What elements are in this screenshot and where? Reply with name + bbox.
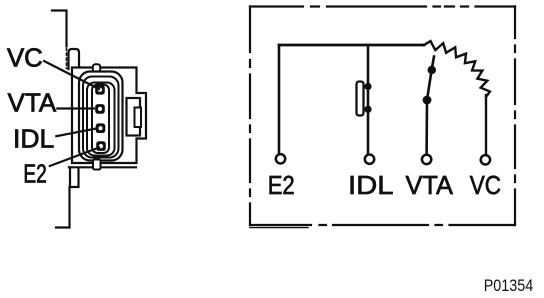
wire IDL drop xyxy=(367,45,370,154)
connector shroud outer xyxy=(79,72,123,161)
pin VTA (2) xyxy=(95,104,105,114)
wire E2 drop xyxy=(278,45,281,153)
svg-text:E2: E2 xyxy=(23,161,46,189)
body tab top xyxy=(69,49,80,69)
dashed box left xyxy=(249,7,251,226)
terminal VTA xyxy=(422,155,431,164)
connector bottom foot xyxy=(93,160,101,170)
wire VC drop xyxy=(485,95,487,154)
dashed box bottom xyxy=(250,224,515,226)
svg-text:VC: VC xyxy=(470,170,501,200)
svg-text:IDL: IDL xyxy=(13,125,54,153)
leader E2 xyxy=(50,148,99,167)
leader VTA xyxy=(57,107,94,109)
svg-text:VC: VC xyxy=(7,45,43,73)
leader VC xyxy=(44,61,99,89)
connector top bump xyxy=(93,64,100,72)
terminal E2 xyxy=(276,154,285,163)
svg-text:E2: E2 xyxy=(268,170,295,200)
bottom border scan double stroke xyxy=(250,227,308,229)
connector pin slot xyxy=(92,85,109,154)
pin E2 (4) xyxy=(96,141,106,151)
connector shroud inner xyxy=(87,83,115,156)
terminal IDL xyxy=(365,155,374,164)
pin VC (1) xyxy=(95,85,105,95)
latch notch xyxy=(135,108,142,128)
VTA wiper dot upper xyxy=(428,66,436,74)
leader IDL xyxy=(56,129,96,137)
resistor (potentiometer track) xyxy=(423,41,490,97)
pin IDL (3) xyxy=(96,123,106,133)
dashed box top xyxy=(250,5,515,7)
flange lower shelf line xyxy=(69,166,136,168)
dashed box right xyxy=(514,7,516,226)
connector latch xyxy=(127,98,141,136)
svg-text:P01354: P01354 xyxy=(484,276,534,295)
svg-text:IDL: IDL xyxy=(348,170,394,200)
sensor body lower edge xyxy=(56,167,79,227)
IDL contact dot lower xyxy=(364,106,371,113)
terminal VC xyxy=(481,155,490,164)
wire VTA wiper arm xyxy=(427,57,434,154)
connector flange plate xyxy=(72,68,146,164)
svg-text:VTA: VTA xyxy=(8,90,57,118)
IDL contact bar xyxy=(357,82,364,116)
svg-text:VTA: VTA xyxy=(406,170,454,200)
wire top bus xyxy=(279,44,424,47)
sensor body outline left xyxy=(52,11,67,47)
IDL contact dot upper xyxy=(364,83,371,90)
VTA wiper dot lower xyxy=(423,96,432,105)
connector shroud mid xyxy=(83,77,119,158)
